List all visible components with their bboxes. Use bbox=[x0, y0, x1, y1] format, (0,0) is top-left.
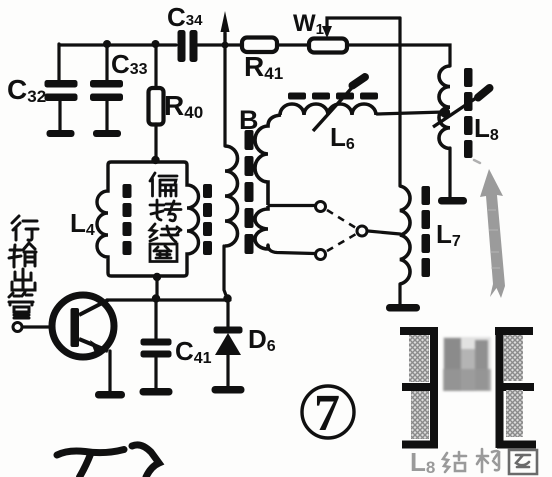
wire W15 right to L8 top bbox=[347, 45, 450, 66]
node L8 tap bbox=[440, 107, 450, 117]
结 bbox=[443, 452, 466, 472]
wire top bus bbox=[59, 43, 176, 46]
resistor R40 bbox=[149, 88, 204, 125]
wire L6 right to L8 tap bbox=[377, 112, 444, 114]
行 bbox=[12, 216, 38, 240]
wire D6 lead bottom bbox=[226, 354, 229, 387]
figure number 7 bbox=[302, 385, 354, 442]
transistor Q (line output) bbox=[13, 295, 125, 399]
capacitor C33 bbox=[90, 49, 148, 137]
wire emitter down bbox=[108, 351, 111, 391]
L4 core dashes bbox=[123, 184, 213, 255]
输 bbox=[9, 243, 36, 267]
capacitor C34 bbox=[167, 2, 203, 62]
node: top bus / R40 junction bbox=[152, 40, 160, 48]
transformer B primary winding bbox=[225, 146, 238, 246]
L4 text 偏转线圈 (hand approximations) bbox=[150, 173, 181, 262]
wire C33 lead top bbox=[105, 44, 108, 80]
inductor L6 adjust arrow bbox=[313, 77, 365, 131]
构 bbox=[477, 449, 499, 472]
diode D6 bbox=[212, 324, 276, 394]
wire wiper top run bbox=[327, 18, 400, 34]
svg-text:7: 7 bbox=[314, 385, 340, 442]
偏 bbox=[150, 173, 177, 196]
right core windings bbox=[504, 335, 523, 381]
node: top bus / C33 junction bbox=[103, 40, 111, 48]
inductor L7 ground bbox=[386, 304, 420, 312]
transformer B secondary winding bbox=[255, 115, 281, 249]
switch dashed arm 2 bbox=[327, 234, 356, 251]
inductor L8 adjust arrow bbox=[433, 88, 490, 127]
left core windings bbox=[409, 335, 429, 382]
wire B secondary bottom to contact 2 bbox=[268, 245, 314, 254]
管 bbox=[9, 292, 33, 318]
出 bbox=[12, 269, 35, 290]
inductor L8 ground bbox=[438, 197, 467, 205]
switch common pole bbox=[357, 226, 367, 236]
wire R40 lead bottom bbox=[154, 124, 157, 161]
switch dashed arm 1 bbox=[327, 210, 356, 228]
wire R41 to W15 bbox=[277, 43, 309, 46]
potentiometer W15 bbox=[293, 10, 347, 53]
node: collector bus / D6 junction bbox=[223, 294, 231, 302]
wire C32 lead bottom bbox=[58, 101, 61, 131]
inductor L7 core bbox=[422, 186, 431, 277]
ground (emitter) bbox=[95, 391, 125, 399]
wire B primary top bbox=[223, 33, 226, 146]
inductor L8 winding bbox=[439, 66, 450, 148]
wire bus y298 bbox=[107, 298, 230, 301]
capacitor C41 bbox=[140, 336, 212, 396]
capacitor C32 bbox=[7, 74, 78, 137]
wire vertical x400 down to L7 bbox=[398, 18, 401, 186]
transformer B core bbox=[245, 130, 254, 254]
wire C41 lead bottom bbox=[154, 357, 157, 389]
wire C34 to R41 bbox=[197, 43, 242, 46]
wire L7 bottom bbox=[398, 284, 401, 304]
线 bbox=[150, 224, 181, 242]
svg-text:B: B bbox=[239, 105, 259, 135]
switch contact 2 bbox=[316, 250, 326, 260]
node: L4 bottom junction bbox=[153, 273, 161, 281]
wire C32 lead top bbox=[57, 44, 60, 80]
wire D6 lead top bbox=[226, 298, 229, 327]
wire L8 bottom bbox=[448, 148, 451, 197]
node: R40 / L4 top junction bbox=[151, 156, 159, 164]
图 darker bbox=[509, 450, 537, 474]
inductor L6 core bbox=[288, 93, 378, 100]
wire B secondary tap to contact1 bbox=[269, 204, 315, 207]
handwriting bottom left bbox=[57, 445, 159, 477]
gray adjust arrow (pencil) bbox=[474, 160, 505, 298]
resistor R41 bbox=[242, 38, 283, 84]
wire transistor base lead bbox=[23, 325, 52, 328]
wire C33 lead bottom bbox=[105, 101, 108, 131]
inductor L6 winding bbox=[280, 104, 376, 115]
deflection coil L4 box bbox=[97, 162, 199, 276]
L8 structure diagram: left E-core bbox=[400, 327, 438, 448]
switch contact 1 bbox=[316, 202, 326, 212]
转 bbox=[150, 200, 181, 221]
arrow up (output) bbox=[221, 11, 230, 46]
inductor L7 winding bbox=[400, 186, 410, 284]
right E-core bbox=[495, 327, 536, 448]
inductor L8 core bbox=[464, 68, 473, 158]
wire C41 lead top bbox=[154, 298, 157, 339]
wire R40 lead top bbox=[154, 44, 157, 88]
wire L4 bottom to bus bbox=[155, 277, 158, 298]
node: top bus / B primary junction bbox=[222, 42, 229, 49]
wire switch common to L7 tap bbox=[368, 231, 400, 234]
text 行输出管 bbox=[9, 216, 38, 318]
node: collector bus / C41 junction bbox=[152, 294, 160, 302]
wire B primary bottom bbox=[224, 246, 227, 298]
圈 (boxed) bbox=[150, 244, 177, 262]
center leg (gray) bbox=[443, 337, 491, 391]
